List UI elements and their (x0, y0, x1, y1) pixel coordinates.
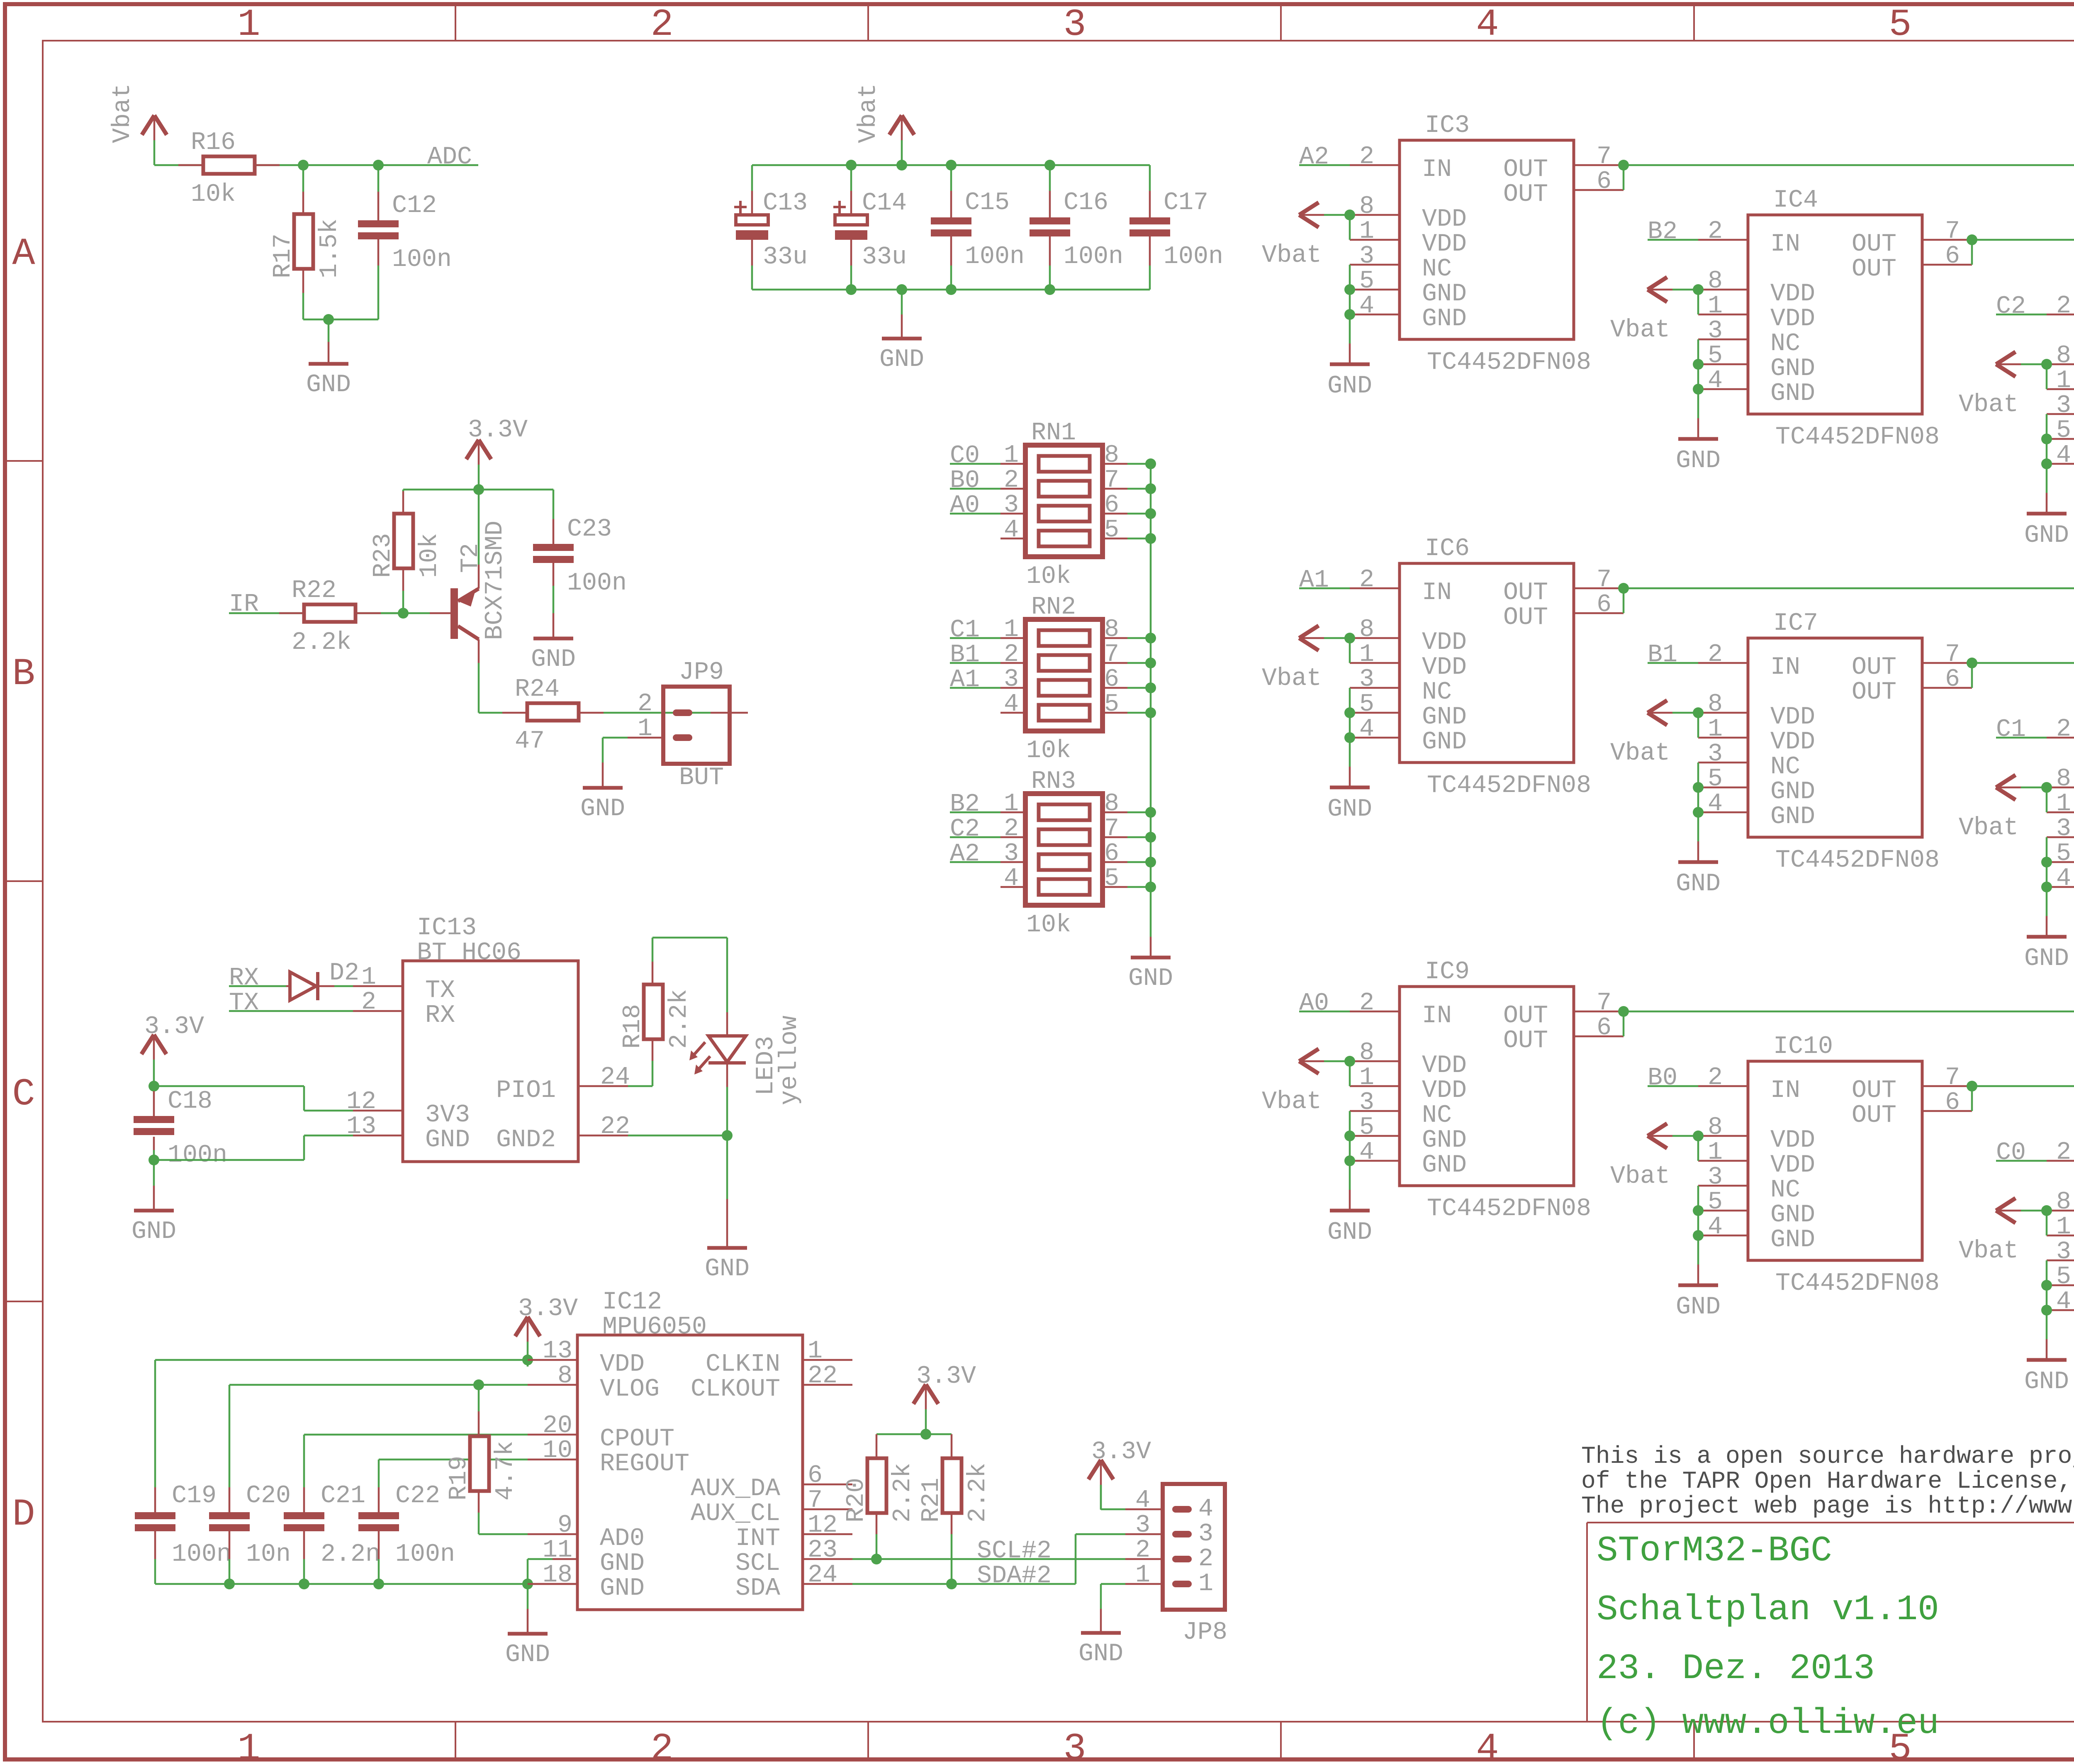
svg-text:12: 12 (346, 1088, 376, 1116)
svg-text:RX: RX (425, 1001, 455, 1030)
svg-text:2: 2 (361, 988, 376, 1016)
svg-text:3.3V: 3.3V (518, 1295, 578, 1323)
svg-text:IC10: IC10 (1773, 1033, 1833, 1061)
svg-text:13: 13 (543, 1337, 572, 1365)
svg-text:This is a open source hardware: This is a open source hardware project, … (1581, 1443, 2074, 1470)
svg-text:3.3V: 3.3V (1091, 1438, 1151, 1466)
svg-text:C0: C0 (1996, 1139, 2026, 1167)
svg-text:2.2k: 2.2k (964, 1463, 992, 1523)
svg-text:4: 4 (1476, 3, 1499, 46)
svg-text:STorM32-BGC: STorM32-BGC (1597, 1530, 1832, 1571)
svg-text:1: 1 (638, 715, 652, 743)
svg-text:D2: D2 (329, 959, 359, 987)
svg-text:BT HC06: BT HC06 (417, 939, 521, 967)
svg-text:13: 13 (346, 1113, 376, 1141)
svg-text:5: 5 (1889, 3, 1911, 46)
svg-text:GND2: GND2 (496, 1126, 556, 1154)
svg-text:ADC: ADC (427, 143, 472, 171)
svg-text:A: A (12, 232, 35, 275)
svg-text:CPOUT: CPOUT (600, 1425, 674, 1453)
svg-text:AUX_DA: AUX_DA (691, 1475, 780, 1503)
svg-text:BCX71SMD: BCX71SMD (481, 521, 509, 640)
svg-text:A2: A2 (1299, 143, 1329, 171)
svg-text:R17: R17 (269, 234, 297, 278)
svg-text:INT: INT (735, 1525, 780, 1553)
svg-text:100n: 100n (392, 246, 452, 274)
svg-text:24: 24 (600, 1063, 630, 1092)
svg-text:GND: GND (600, 1574, 645, 1603)
svg-text:The project web page is http:/: The project web page is http://www.olliw… (1581, 1493, 2074, 1520)
svg-text:1: 1 (1135, 1561, 1150, 1589)
svg-text:R20: R20 (842, 1478, 871, 1523)
svg-text:R21: R21 (918, 1478, 946, 1523)
svg-text:T2: T2 (457, 543, 485, 573)
svg-text:C23: C23 (567, 515, 612, 543)
svg-text:IC12: IC12 (602, 1288, 662, 1316)
svg-text:8: 8 (557, 1362, 572, 1390)
svg-text:3.3V: 3.3V (916, 1362, 976, 1391)
svg-text:B2: B2 (950, 790, 980, 819)
svg-text:C19: C19 (172, 1482, 217, 1510)
svg-text:SCL: SCL (735, 1550, 780, 1578)
svg-text:B: B (12, 652, 35, 696)
svg-text:10: 10 (543, 1437, 572, 1465)
svg-text:2.2k: 2.2k (889, 1463, 917, 1523)
svg-text:20: 20 (543, 1412, 572, 1440)
svg-text:33u: 33u (862, 243, 907, 271)
svg-text:3.3V: 3.3V (468, 416, 528, 444)
svg-text:3: 3 (1063, 3, 1086, 46)
svg-text:1: 1 (361, 963, 376, 992)
svg-text:2: 2 (650, 1727, 673, 1764)
svg-text:AUX_CL: AUX_CL (691, 1500, 780, 1528)
svg-text:Schaltplan v1.10: Schaltplan v1.10 (1597, 1589, 1939, 1630)
svg-text:33u: 33u (763, 243, 808, 271)
svg-text:GND: GND (879, 346, 924, 374)
svg-text:GND: GND (1078, 1640, 1123, 1668)
svg-text:IC13: IC13 (417, 914, 477, 942)
svg-text:22: 22 (600, 1113, 630, 1141)
svg-text:GND: GND (505, 1641, 550, 1669)
svg-text:R24: R24 (515, 675, 560, 704)
svg-text:GND: GND (580, 795, 625, 823)
svg-text:R23: R23 (369, 533, 397, 578)
svg-text:B0: B0 (1648, 1064, 1677, 1092)
svg-text:C15: C15 (965, 189, 1010, 217)
svg-text:RN3: RN3 (1031, 767, 1076, 796)
svg-text:yellow: yellow (776, 1016, 804, 1105)
svg-text:B1: B1 (1648, 641, 1677, 669)
svg-text:(c) www.olliw.eu: (c) www.olliw.eu (1597, 1703, 1939, 1744)
svg-text:VLOG: VLOG (600, 1375, 660, 1403)
svg-text:REGOUT: REGOUT (600, 1450, 689, 1478)
svg-text:TX: TX (229, 989, 259, 1017)
svg-text:RN2: RN2 (1031, 593, 1076, 621)
svg-text:2.2k: 2.2k (665, 989, 694, 1049)
svg-text:10n: 10n (246, 1540, 291, 1569)
svg-text:JP9: JP9 (679, 658, 724, 687)
svg-text:100n: 100n (965, 243, 1025, 271)
svg-text:Vbat: Vbat (109, 83, 137, 143)
svg-text:A1: A1 (950, 666, 980, 694)
svg-text:C1: C1 (950, 616, 980, 644)
svg-text:R18: R18 (619, 1004, 647, 1049)
svg-text:C21: C21 (321, 1482, 365, 1510)
svg-text:Vbat: Vbat (854, 83, 883, 143)
svg-text:IC3: IC3 (1425, 112, 1470, 140)
svg-text:B1: B1 (950, 641, 980, 669)
svg-text:C: C (12, 1072, 35, 1116)
svg-text:A0: A0 (1299, 989, 1329, 1018)
svg-text:100n: 100n (395, 1540, 455, 1569)
svg-text:C22: C22 (395, 1482, 440, 1510)
svg-text:RX: RX (229, 964, 259, 992)
svg-text:100n: 100n (1164, 243, 1223, 271)
svg-text:BUT: BUT (679, 764, 724, 792)
svg-text:11: 11 (543, 1536, 572, 1564)
svg-text:12: 12 (808, 1511, 837, 1540)
svg-text:1: 1 (237, 3, 260, 46)
svg-text:TX: TX (425, 977, 455, 1005)
svg-text:IC9: IC9 (1425, 958, 1470, 986)
svg-text:22: 22 (808, 1362, 837, 1390)
svg-text:D: D (12, 1493, 35, 1536)
svg-text:GND: GND (531, 646, 576, 674)
svg-text:3: 3 (1135, 1511, 1150, 1540)
svg-text:2: 2 (1135, 1536, 1150, 1564)
svg-text:GND: GND (306, 371, 351, 399)
svg-text:10k: 10k (416, 533, 444, 578)
svg-text:SDA: SDA (735, 1574, 780, 1603)
svg-text:C12: C12 (392, 192, 437, 220)
svg-text:2: 2 (650, 3, 673, 46)
svg-text:2.2n: 2.2n (321, 1540, 380, 1569)
svg-text:9: 9 (557, 1511, 572, 1540)
svg-text:C14: C14 (862, 189, 907, 217)
svg-text:C17: C17 (1164, 189, 1208, 217)
svg-text:7: 7 (808, 1486, 823, 1515)
svg-text:JP8: JP8 (1183, 1618, 1227, 1647)
svg-text:2.2k: 2.2k (292, 629, 351, 657)
svg-text:SCL#2: SCL#2 (977, 1537, 1052, 1565)
svg-text:A2: A2 (950, 840, 980, 868)
svg-text:C20: C20 (246, 1482, 291, 1510)
svg-text:C16: C16 (1064, 189, 1108, 217)
svg-text:IC4: IC4 (1773, 186, 1818, 214)
svg-text:100n: 100n (1064, 243, 1123, 271)
svg-text:A1: A1 (1299, 566, 1329, 594)
svg-text:RN1: RN1 (1031, 419, 1076, 447)
svg-text:C18: C18 (168, 1087, 212, 1116)
svg-text:C13: C13 (763, 189, 808, 217)
svg-text:IC6: IC6 (1425, 535, 1470, 563)
svg-text:CLKOUT: CLKOUT (691, 1375, 780, 1403)
svg-text:24: 24 (808, 1561, 837, 1589)
svg-text:C2: C2 (950, 815, 980, 843)
svg-text:4: 4 (1198, 1495, 1213, 1523)
svg-text:B0: B0 (950, 467, 980, 495)
svg-text:IR: IR (229, 590, 259, 619)
svg-text:100n: 100n (172, 1540, 231, 1569)
svg-text:47: 47 (515, 727, 545, 755)
svg-text:of the TAPR Open Hardware Lice: of the TAPR Open Hardware License, http:… (1581, 1468, 2074, 1495)
svg-text:6: 6 (808, 1462, 823, 1490)
svg-text:B2: B2 (1648, 218, 1677, 246)
svg-text:100n: 100n (567, 569, 627, 597)
svg-text:R22: R22 (292, 577, 336, 605)
svg-text:1: 1 (808, 1337, 823, 1365)
svg-text:AD0: AD0 (600, 1525, 645, 1553)
svg-text:GND: GND (1128, 965, 1173, 993)
svg-text:VDD: VDD (600, 1350, 645, 1379)
svg-text:IC7: IC7 (1773, 609, 1818, 638)
svg-text:2: 2 (638, 690, 652, 718)
svg-text:4.7k: 4.7k (492, 1441, 520, 1501)
svg-text:C0: C0 (950, 442, 980, 470)
svg-text:GND: GND (425, 1126, 470, 1154)
svg-text:MPU6050: MPU6050 (602, 1313, 707, 1341)
svg-text:1: 1 (1198, 1570, 1213, 1598)
svg-text:GND: GND (600, 1550, 645, 1578)
svg-text:3V3: 3V3 (425, 1101, 470, 1129)
svg-text:10k: 10k (191, 180, 236, 209)
svg-text:18: 18 (543, 1561, 572, 1589)
svg-text:1.5k: 1.5k (316, 219, 344, 278)
svg-text:C2: C2 (1996, 292, 2026, 321)
svg-text:2: 2 (1198, 1545, 1213, 1573)
svg-text:23. Dez. 2013: 23. Dez. 2013 (1597, 1648, 1875, 1689)
svg-text:R19: R19 (445, 1456, 473, 1501)
svg-text:23: 23 (808, 1536, 837, 1564)
svg-text:4: 4 (1476, 1727, 1499, 1764)
svg-text:3: 3 (1063, 1727, 1086, 1764)
svg-text:1: 1 (237, 1727, 260, 1764)
svg-text:PIO1: PIO1 (496, 1077, 556, 1105)
svg-text:3: 3 (1198, 1520, 1213, 1548)
svg-text:SDA#2: SDA#2 (977, 1562, 1052, 1590)
svg-text:A0: A0 (950, 492, 980, 520)
svg-text:4: 4 (1135, 1486, 1150, 1515)
svg-text:CLKIN: CLKIN (706, 1350, 780, 1379)
svg-text:C1: C1 (1996, 716, 2026, 744)
svg-text:GND: GND (131, 1218, 176, 1246)
svg-text:GND: GND (705, 1255, 750, 1283)
svg-text:R16: R16 (191, 129, 236, 157)
svg-text:3.3V: 3.3V (144, 1013, 204, 1041)
svg-text:100n: 100n (168, 1141, 227, 1170)
